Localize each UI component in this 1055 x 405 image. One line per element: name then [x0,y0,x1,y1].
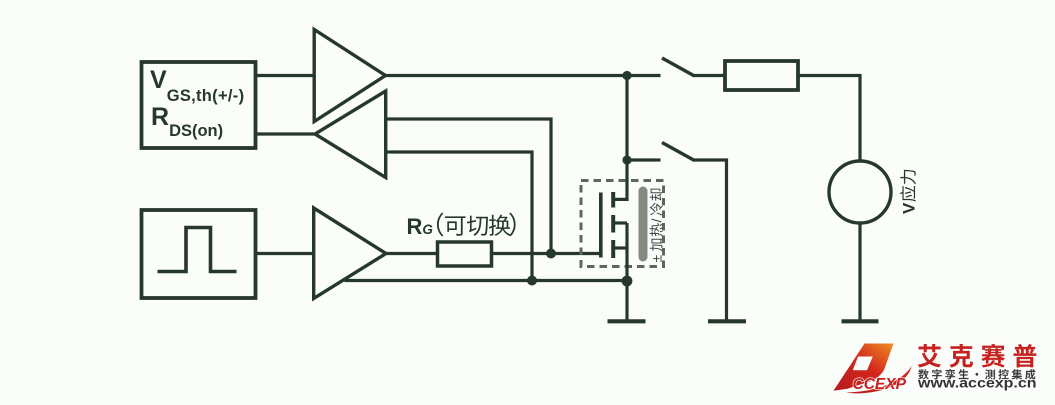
logo letter A [834,344,894,391]
pulse waveform symbol [158,228,237,272]
MOSFET Q1 gate bar [599,193,603,258]
wire box1 to buffer U1 [255,74,315,77]
box V_GS,th / R_DS(on) source-measure block [142,62,256,148]
logo swoosh [846,366,912,394]
svg-text:VGS,th(+/-): VGS,th(+/-) [150,66,244,105]
wire U2 upper sense to gate node [386,119,551,254]
node source junction [622,276,633,287]
node drain top junction [622,71,631,80]
switch S1 left contact [627,74,661,77]
wire box1 to sense amp U2 [255,132,316,135]
op-amp gate driver U3 [314,208,386,299]
MOSFET source vertical [625,223,628,281]
wire U1 output to drain node [384,74,627,77]
op-amp buffer U1 (drive) [314,30,385,122]
ground V source leg [842,319,879,323]
wire U2 lower sense to source node [386,152,532,281]
wire RG to MOSFET gate [492,252,602,255]
svg-text:/: / [649,219,665,223]
node source-sense junction [527,276,537,286]
switch S2 blade [662,143,695,161]
op-amp sense buffer U2 (left-pointing) [315,91,386,178]
svg-text:www.accexp.cn: www.accexp.cn [917,375,1037,390]
svg-text:V: V [900,202,919,214]
wire pulse box to gate driver U3 [255,252,314,255]
dashed DUT box [581,181,664,267]
node gate-sense junction [546,249,556,259]
MOSFET body stub [613,221,627,224]
label ±加热/冷却 (vertical) [649,189,665,263]
svg-text:RDS(on): RDS(on) [151,103,223,140]
svg-text:RG: RG [407,214,434,239]
wire S2 to ground [693,160,727,321]
switch S1 blade [662,58,695,76]
wire U3 to resistor RG [385,252,438,255]
wire S1 to resistor R1 [693,74,725,77]
MOSFET drain stub [613,76,627,200]
MOSFET Q1 channel segments [611,192,615,208]
switch S2 left contact [627,158,661,161]
pulse generator box [142,210,256,298]
wire source return from U3 edge [345,279,628,282]
ground S2 leg [708,319,746,323]
svg-text:±: ± [649,255,665,263]
voltage source V stress [829,161,891,223]
label V应力 (vertical) [900,170,919,214]
wire V source to ground [858,223,861,321]
resistor RG [438,242,492,266]
ground source leg [625,281,628,320]
resistor R1 (stress path) [725,61,798,90]
heater/cooler capsule bar [639,187,648,262]
MOSFET source stub [613,246,627,249]
logo text 艾克赛普 [918,344,941,367]
node drain mid junction [622,155,631,164]
slogan 数字孪生·测控集成 [918,369,929,379]
svg-text:CCEXP: CCEXP [853,376,907,393]
wire R1 to source V [798,76,860,162]
